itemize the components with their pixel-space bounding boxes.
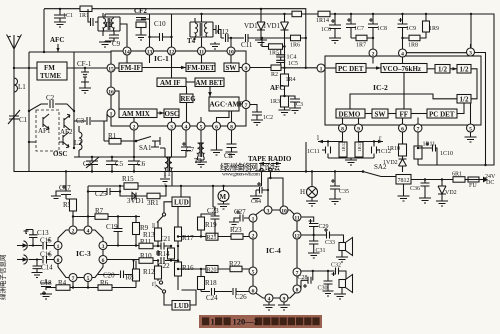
resistor 1R14 [316,11,330,24]
junction 1VD2 bus [402,176,404,178]
svg-text:1C4: 1C4 [287,55,297,61]
capacitor 1C1 [54,9,73,22]
svg-text:C11: C11 [241,41,253,49]
wire AGC to pin6 [217,111,230,122]
capacitor C10 [148,14,172,47]
pin 10 [227,47,235,55]
resistor R8 [124,261,140,288]
svg-text:12: 12 [169,49,175,55]
svg-text:4: 4 [87,228,90,234]
svg-text:绿洲维修网上论坛: 绿洲维修网上论坛 [220,161,280,172]
svg-text:7812: 7812 [398,178,410,184]
ground 1C6 [329,38,341,43]
svg-text:C5: C5 [115,160,124,168]
resistor R2 [271,65,281,78]
switch blade r [156,285,162,290]
wire main B bus y171.5 [262,171,364,173]
wire pin11 riser [301,217,314,222]
resistor R16 [175,259,195,290]
ceramic filter CF-1 [77,60,92,82]
IC U3 IC-3 outline [58,230,103,278]
block REG [180,94,196,103]
capacitor C12 [217,28,231,42]
wire RADIO contact drop [271,172,284,206]
caption bar [199,315,322,328]
svg-text:8: 8 [230,124,233,130]
wire l output arrow [317,134,343,143]
pin 5 [197,122,205,130]
pin IC4-3 [264,206,272,214]
pin 11 [198,47,206,55]
block FM-IF [119,63,142,72]
wire pin9 to R2 [250,67,271,69]
zener 1VD1 [263,13,289,68]
resistor R15 [122,175,138,189]
pin IC2-6 [399,124,407,132]
capacitor C34 [251,182,269,205]
ground C9 [99,41,111,47]
svg-text:AF2: AF2 [60,128,73,136]
pin IC4-5 [249,267,257,275]
svg-text:IC-2: IC-2 [373,83,388,92]
ground C31 [308,253,320,258]
pin 13 [146,47,154,55]
transformer T2 [98,17,120,31]
wire 7812 gnd [398,184,410,201]
wire bus186 corner down to pin IC3-4 [87,186,89,226]
wire DEMO to pin8 [342,118,344,124]
wire FF to PC DET2 [411,113,427,115]
svg-text:1R4: 1R4 [286,77,296,83]
resistor 3R1 [147,193,160,207]
capacitor C7 [181,142,195,157]
svg-text:C12: C12 [217,28,229,36]
block AM MIX [119,109,157,118]
wire pin4 ground [263,302,275,310]
ground H1 [306,201,318,206]
svg-text:IC-4: IC-4 [266,246,281,255]
resistor 1R13 [355,141,363,158]
svg-text:1R3: 1R3 [270,99,280,105]
svg-text:2: 2 [372,51,375,57]
wire C23 R19 to bus [213,186,215,214]
svg-text:REG: REG [181,95,197,103]
wire SW to pin9 [239,67,242,69]
pin IC3-8 [54,256,62,264]
wire second supply rail [105,14,494,165]
svg-text:1R10: 1R10 [387,146,400,152]
box LUD upper [172,197,190,207]
capacitor C11 [231,34,261,49]
pin 2 [130,122,138,130]
svg-text:T1: T1 [163,170,171,178]
speaker SP2 [339,275,353,295]
svg-text:OSC: OSC [165,110,179,118]
wire tape section bus y186 [88,185,262,187]
ground CF2 [136,35,147,40]
svg-text:7: 7 [417,126,420,132]
svg-text:1C10: 1C10 [440,151,453,157]
capacitor 1C4 [276,49,296,60]
svg-text:3: 3 [469,50,472,56]
svg-text:L2: L2 [74,139,82,147]
svg-text:1R7: 1R7 [356,43,366,49]
wire pin8 to C28 [301,271,313,289]
transformer T4 [187,22,213,45]
ground 1R3 [279,107,291,115]
resistor R14 [158,245,175,262]
wire lr ground bus [328,157,374,159]
svg-text:M: M [220,193,227,201]
junction T4 rail [200,13,202,15]
ground C8 [226,152,238,157]
svg-text:11: 11 [294,215,299,221]
svg-text:R8: R8 [126,274,135,282]
wire top supply rail [44,9,306,68]
capacitor C32 [331,263,346,280]
wire pin7 drop to 1R11 [417,132,419,146]
svg-text:C1: C1 [19,116,28,124]
capacitor C2 [46,94,55,108]
wire AGC to pin8 [231,111,233,122]
capacitor C5 [106,156,124,173]
svg-text:14: 14 [124,49,130,55]
svg-text:7: 7 [245,103,248,109]
pin IC4-12 [293,231,301,239]
wire C12 node to pin10 [230,38,232,47]
wire mid bus y157 [74,156,186,158]
svg-text:l: l [317,134,319,142]
wire R7 rung [73,216,136,218]
resistor R5 [63,199,77,217]
svg-text:1C2: 1C2 [263,115,273,121]
svg-text:FM-IF: FM-IF [121,64,141,72]
capacitor C8 [224,144,237,160]
resistor R1 [108,132,136,144]
svg-text:9: 9 [283,296,286,302]
svg-text:9: 9 [245,66,248,72]
capacitor 1C8 [368,13,387,49]
svg-text:1R13: 1R13 [357,141,362,152]
wire pin6 drop [216,130,218,150]
svg-text:6: 6 [401,126,404,132]
svg-text:3: 3 [102,244,105,250]
IC U4 IC-4 outline [253,210,297,298]
transformer T3 [194,143,204,165]
wire pin7 to C32 [301,270,335,272]
speaker SP1 [339,238,353,258]
wire bottom rung y287.5 [46,287,124,289]
wire half-a to half-b [450,68,457,70]
pin IC2-8 [339,124,347,132]
svg-text:1: 1 [252,216,255,222]
contact switch-r lower [162,290,165,293]
svg-text:C26: C26 [235,293,247,301]
pin 9 [242,64,250,72]
svg-text:AFC: AFC [50,36,64,44]
wire AFC node [284,86,286,96]
block PC DET 2 [427,109,457,118]
variable capacitor C4 [83,156,99,173]
ground SP2 [334,294,346,299]
capacitor 1C6 electrolytic [321,13,341,38]
svg-text:1R9: 1R9 [429,26,439,32]
svg-text:VD1: VD1 [244,22,258,30]
svg-text:r|: r| [152,280,156,288]
wire tuner left vertical x29 [28,52,30,172]
wire T2 riser to rail2 [104,14,106,17]
svg-text:C19: C19 [106,223,118,231]
wire half-b feedback to half-c [471,69,477,99]
capacitor T4 tuning [213,25,221,38]
svg-text:1VD1: 1VD1 [263,22,281,30]
resistor 1R6 [262,35,307,48]
svg-text:www.green-wlt.com: www.green-wlt.com [222,172,261,178]
wire TAPE contact drop [261,172,263,186]
wire AM BET down to AGC-AMP arrow [209,87,211,98]
svg-text:C8: C8 [224,152,233,160]
junction VD1 rail [260,8,262,10]
transistor AF1 [38,114,51,135]
wire L out y236.5 [178,236,249,238]
capacitor C17 [59,170,71,199]
wire 3VD1 branch [120,186,166,196]
svg-text:VD2: VD2 [445,190,457,196]
wire pin4 to pin3 [407,52,467,54]
wire R9 top rung [136,216,140,218]
capacitor C18 [40,279,52,295]
svg-text:R16: R16 [182,264,194,272]
ground C12 [210,42,220,49]
wire pin IC4-3 riser [268,178,271,206]
svg-text:CF-1: CF-1 [77,60,92,68]
capacitor C35 [330,170,349,199]
svg-text:16: 16 [108,89,114,95]
svg-text:FF: FF [400,110,409,118]
wire pin10 into SW [230,55,232,63]
pin IC4-8 [293,285,301,293]
resistor 6R1 [452,172,465,183]
wire pin3 drop to T1 [171,130,174,157]
pin IC4-2 [249,231,257,239]
svg-text:1C11: 1C11 [307,149,320,155]
contact RADIO right [269,168,272,171]
wire half-c to DEMO bus [350,94,457,109]
pin 14 [123,47,131,55]
capacitor C31 [309,235,326,254]
zener 1VD2 [383,156,407,172]
capacitor C14 [33,258,54,272]
svg-text:AM BET: AM BET [196,79,224,87]
capacitor C6 [128,156,146,173]
block SW inside IC-1 [224,63,239,72]
svg-text:1R8: 1R8 [408,43,418,49]
svg-text:SA1: SA1 [139,144,152,152]
svg-text:R17: R17 [182,234,194,242]
wire pin4 into VCO [402,57,404,64]
wire pin16 stub [115,91,119,109]
motor M [218,185,229,204]
svg-text:AM IF: AM IF [160,79,180,87]
wire R out y269 [178,268,249,270]
ground VD1 [255,38,267,45]
wire r contact to LUD2 [164,293,172,305]
svg-text:C33: C33 [325,240,335,246]
svg-text:3: 3 [170,124,173,130]
capacitor C25 [87,188,120,198]
resistor 1R7 [351,35,373,48]
zener VD2 [438,178,457,201]
pin IC2-9 [355,124,363,132]
capacitor C26 [233,288,249,301]
svg-text:6: 6 [102,258,105,264]
wire pin9 ground [278,302,290,310]
ground C17 stub [51,191,61,199]
pin 4 [182,122,190,130]
wire pin5 stub [200,117,202,122]
capacitor 1C9 [398,13,417,49]
contact switch-l [162,213,165,216]
wire R1 net [104,121,109,141]
wire pin5 ground [465,132,477,142]
svg-text:R18: R18 [205,279,217,287]
wire pin7 stub up [417,118,419,125]
wire IC2 pin1 to PC DET [325,67,336,69]
svg-text:CF2: CF2 [134,7,147,15]
capacitor C24 [201,288,232,302]
pin IC2-4 [399,49,407,57]
svg-text:PC DET: PC DET [429,110,455,118]
svg-text:10: 10 [281,208,287,214]
svg-text:LUD: LUD [174,199,189,207]
junction 29,142 [28,141,30,143]
resistor R7 [95,207,108,219]
resistor 1R12 [339,141,347,158]
wire DEMO to SW [365,113,372,115]
svg-text:FM-DET: FM-DET [187,64,215,72]
svg-text:6R1: 6R1 [452,172,462,178]
variable capacitor C1 [8,110,28,124]
resistor R19 [198,214,218,238]
resistor 1R4 [281,68,296,86]
svg-text:C6: C6 [137,160,146,168]
svg-text:1R12: 1R12 [341,141,346,152]
capacitor C27 [234,208,249,222]
pin IC4-1 [249,214,257,222]
wire OSC to pin3 [171,118,173,123]
ground C36 [419,198,431,203]
wire pin2 into PC DET [372,57,374,64]
block AM BET [195,78,224,87]
svg-text:13: 13 [147,49,153,55]
block FF [396,109,411,118]
ground CF-1 [79,82,91,93]
junction rail-1C1 [59,8,61,10]
svg-text:1C5: 1C5 [288,61,298,67]
block DEMO [336,109,365,118]
ground C30 [323,291,334,296]
pin 7 [242,101,250,109]
pin IC3-4 [84,226,92,234]
pin IC2-5 [467,124,475,132]
inductor L1 [14,78,26,92]
svg-text:5: 5 [87,276,90,282]
svg-text:R13: R13 [143,231,155,239]
svg-text:SA2: SA2 [374,163,387,171]
pin IC4-9 [280,294,288,302]
svg-text:SW: SW [226,64,237,72]
pin 15 [107,64,115,72]
svg-text:5: 5 [469,126,472,132]
wire pin13 drop [149,55,151,63]
svg-text:C20: C20 [103,272,115,280]
ground 1C1 [54,22,66,27]
ground T3 [195,160,207,167]
svg-text:1: 1 [211,317,215,327]
wire L channel y246 [107,245,139,247]
resistor R6 [98,279,112,290]
wire pin14 into FM-IF [126,55,128,63]
pin IC3-3 [99,242,107,250]
svg-text:TUME: TUME [40,72,61,80]
pin 16 [107,87,115,95]
ground lr bus [345,158,357,165]
resistor R11 [139,238,159,249]
wire pin3 right drop [475,53,486,166]
svg-text:r: r [379,134,382,142]
block half-c [457,95,471,104]
svg-text:1/2: 1/2 [438,66,447,74]
wire TAPE bus to lr vertical [305,142,307,172]
svg-text:C14: C14 [41,264,53,272]
svg-text:DC: DC [486,180,494,186]
transistor OSC [53,132,69,158]
pin 3 [168,122,176,130]
capacitor C23 [207,207,220,237]
wire pin6 drop to 1R10 [402,132,404,144]
svg-text:1C7: 1C7 [354,26,364,32]
ground 1C2 [251,120,263,125]
wire pin12 to AM IF [171,55,173,78]
wire C2 tank top [29,104,74,111]
pin IC3-5 [84,274,92,282]
resistor R9 [133,215,149,246]
svg-text:11: 11 [199,49,204,55]
wire AGC-AMP to pin7 [239,103,242,105]
svg-text:C24: C24 [206,294,218,302]
jack input R [17,255,42,264]
ground VD2 [436,201,448,206]
svg-text:R15: R15 [122,175,134,183]
wire LUD left to switch [164,202,172,213]
resistor 1R5 [261,37,286,57]
lamp H1 [300,170,318,201]
resistor 1R1 [79,6,92,19]
inductor L2 [74,126,82,157]
capacitor C28 [298,275,312,288]
wire LUD up to bus [180,186,182,197]
svg-text:2: 2 [252,233,255,239]
wire C21 R13 junction [165,245,168,247]
block half-a [435,65,450,74]
resistor R21 [206,233,218,241]
resistor R10 [139,252,153,263]
svg-text:1C8: 1C8 [377,26,387,32]
block PC DET [336,64,366,73]
wire pin5 drop [87,282,89,288]
svg-text:4: 4 [268,296,271,302]
pin 1 [107,109,115,117]
